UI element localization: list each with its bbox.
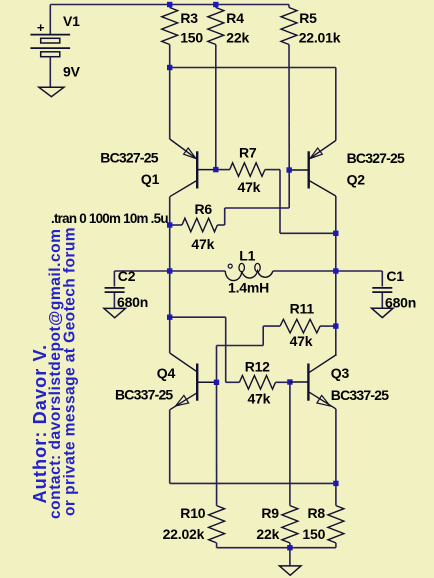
svg-text:R11: R11 <box>290 301 315 317</box>
node junction Q2 collector <box>333 231 338 236</box>
node junction mid right <box>333 268 338 273</box>
svg-text:R6: R6 <box>195 201 213 217</box>
label 680n C1 <box>385 295 416 311</box>
battery V1 <box>30 5 70 88</box>
wire Q1 collector <box>169 197 171 353</box>
label .tran directive <box>51 211 168 226</box>
svg-text:150: 150 <box>180 30 203 46</box>
resistor R3 <box>162 5 178 68</box>
label 150 R8 <box>302 526 325 542</box>
resistor R12 <box>239 376 290 390</box>
wire mid rail right <box>273 270 382 272</box>
label 47k R12 <box>248 391 271 407</box>
svg-text:C1: C1 <box>386 268 404 284</box>
label R6 <box>195 201 213 217</box>
wire Q3 emitter <box>335 409 337 484</box>
ground C2 <box>104 308 126 317</box>
label 680n C2 <box>117 294 148 310</box>
svg-text:R7: R7 <box>239 145 257 161</box>
label 22k R4 <box>226 30 249 46</box>
label 22.02k <box>163 526 205 542</box>
transistor Q4 <box>170 353 217 410</box>
svg-text:BC337-25: BC337-25 <box>331 387 389 403</box>
resistor R9 <box>282 382 298 548</box>
wire Q1 emitter <box>169 68 171 140</box>
label R12 <box>245 359 270 375</box>
resistor R5 <box>281 5 297 171</box>
node junction ground <box>287 545 292 550</box>
svg-text:680n: 680n <box>117 294 148 310</box>
svg-text:R8: R8 <box>308 505 326 521</box>
svg-text:R4: R4 <box>226 10 244 26</box>
node junction emitter rail <box>333 481 338 486</box>
node junction Q4 base <box>214 380 219 385</box>
capacitor C1 <box>372 271 392 308</box>
label BC337-25 Q4 <box>115 386 173 402</box>
svg-text:.tran 0 100m 10m .5u: .tran 0 100m 10m .5u <box>51 211 168 226</box>
wire top supply rail <box>50 4 289 6</box>
svg-text:22k: 22k <box>256 526 279 542</box>
svg-text:+: + <box>37 20 45 35</box>
svg-text:R12: R12 <box>245 359 270 375</box>
svg-text:or private message at Geotech: or private message at Geotech forum <box>61 227 78 516</box>
svg-text:C2: C2 <box>118 268 136 284</box>
transistor Q2 <box>289 141 336 197</box>
node junction R11 right <box>333 323 338 328</box>
label R8 <box>308 505 326 521</box>
ground C1 <box>372 308 394 317</box>
wire bottom rail <box>217 547 336 549</box>
label R4 <box>226 10 244 26</box>
label Q2 <box>347 172 366 188</box>
svg-text:Q1: Q1 <box>141 171 160 187</box>
node junction R3 bottom <box>167 65 172 70</box>
svg-text:9V: 9V <box>63 64 81 80</box>
label 150 R3 <box>180 30 203 46</box>
label Q1 <box>141 171 160 187</box>
wire mid rail left <box>114 270 225 272</box>
svg-text:47k: 47k <box>191 236 214 252</box>
resistor R11 <box>217 319 336 382</box>
svg-text:Q3: Q3 <box>331 365 350 381</box>
svg-text:22k: 22k <box>226 30 249 46</box>
node junction Q1 base <box>213 167 218 172</box>
label 1.4mH <box>228 279 269 295</box>
inductor L1 <box>225 263 273 280</box>
resistor R4 <box>208 5 224 170</box>
label R11 <box>290 301 315 317</box>
wire Q2 collector <box>335 196 337 356</box>
svg-text:BC337-25: BC337-25 <box>115 386 173 402</box>
svg-text:47k: 47k <box>248 391 271 407</box>
label R9 <box>261 505 279 521</box>
label C1 <box>386 268 404 284</box>
wire R12 branch <box>170 317 240 382</box>
wire upper emitter rail <box>170 68 336 141</box>
transistor Q3 <box>290 355 336 409</box>
svg-text:22.02k: 22.02k <box>163 526 205 542</box>
label C2 <box>118 268 136 284</box>
svg-text:V1: V1 <box>63 13 80 29</box>
label contact line <box>47 229 64 519</box>
node junction left branch <box>167 315 172 320</box>
ground battery <box>39 87 64 96</box>
svg-text:47k: 47k <box>290 333 313 349</box>
label V1 <box>63 13 80 29</box>
label 22.01k R5 <box>299 30 341 46</box>
label R3 <box>180 10 198 26</box>
capacitor C2 <box>105 271 125 308</box>
label BC337-25 Q3 <box>331 387 389 403</box>
label BC327-25 Q2 <box>347 150 405 166</box>
label R7 <box>239 145 257 161</box>
svg-text:L1: L1 <box>239 248 255 264</box>
node junction mid left <box>167 268 172 273</box>
node junction R3 top <box>167 2 172 7</box>
node junction R4 top <box>213 2 218 7</box>
svg-text:47k: 47k <box>238 179 261 195</box>
label author line <box>30 344 50 504</box>
node junction R12 right <box>287 379 292 384</box>
label Q3 <box>331 365 350 381</box>
label forum line <box>61 227 78 516</box>
label R5 <box>299 10 317 26</box>
label 47k R11 <box>290 333 313 349</box>
label 47k R6 <box>191 236 214 252</box>
svg-text:R5: R5 <box>299 10 317 26</box>
resistor R10 <box>209 382 225 547</box>
svg-text:1.4mH: 1.4mH <box>228 279 269 295</box>
label Q4 <box>157 365 176 381</box>
node junction R6 left <box>167 222 172 227</box>
label 9V <box>63 64 81 80</box>
label L1 <box>239 248 255 264</box>
svg-text:R9: R9 <box>261 505 279 521</box>
svg-text:Q4: Q4 <box>157 365 176 381</box>
label R10 <box>180 505 205 521</box>
svg-text:R3: R3 <box>180 10 198 26</box>
wire ground stub <box>289 548 291 566</box>
resistor R7 <box>216 163 336 234</box>
label 22k R9 <box>256 526 279 542</box>
label 47k R7 <box>238 179 261 195</box>
node junction Q2 base <box>287 167 292 172</box>
svg-text:22.01k: 22.01k <box>299 30 341 46</box>
svg-text:Q2: Q2 <box>347 172 366 188</box>
ground main <box>279 566 301 575</box>
resistor R8 <box>328 483 344 547</box>
svg-text:R10: R10 <box>180 505 205 521</box>
wire Q4 emitter <box>170 410 336 484</box>
svg-text:BC327-25: BC327-25 <box>347 150 405 166</box>
label BC327-25 Q1 <box>100 149 158 165</box>
resistor R6 <box>170 170 290 232</box>
transistor Q1 <box>170 139 216 197</box>
svg-text:BC327-25: BC327-25 <box>100 149 158 165</box>
svg-text:150: 150 <box>302 526 325 542</box>
